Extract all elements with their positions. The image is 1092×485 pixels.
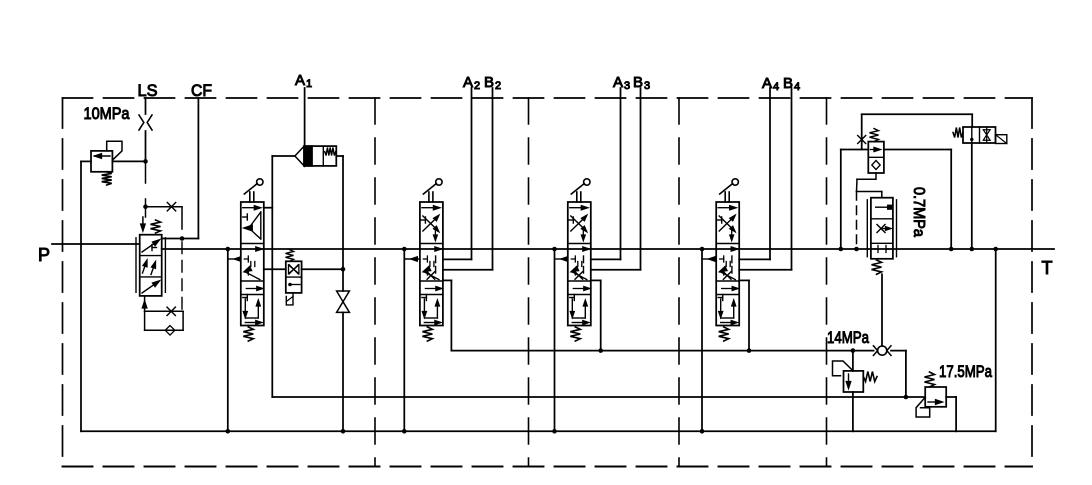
check valve in bypass loop [165,326,175,336]
wire 17.5MPa output [946,396,956,398]
node compensator output junction [341,267,346,272]
node main rail junction x=856.5 [854,247,859,252]
wire tank bus bottom [81,430,996,432]
svg-text:4: 4 [773,81,779,93]
priority valve top spring [151,220,161,233]
compensator pilot tab [286,293,293,305]
wire compensator line to valve1 [264,268,286,270]
node main rail junction [700,247,705,252]
wire cylinder drain x=343 down through main rail [342,156,344,269]
0.7MPa valve box1 mark [876,206,887,208]
valve return spring [422,327,432,341]
wire drop to tank bus [701,249,703,431]
compensator valve body [286,261,302,293]
directional valve body [420,202,443,326]
wire LS to corner down to drain gallery [891,350,906,352]
node main rail junction [402,247,407,252]
priority valve box1 arrow [142,241,159,253]
valve box2 center marks [435,247,442,251]
manual unloader solenoid box [996,135,1007,144]
wire pilot drop to unloading valve [861,114,863,149]
svg-text:A: A [613,74,623,91]
relief 17.5MPa spring [925,372,935,387]
wire drain to LS gallery [739,279,749,281]
svg-text:3: 3 [624,80,630,92]
valve box3 arrow [722,288,736,290]
wire A port line [769,88,771,259]
unloading valve body [868,142,884,173]
manual unloader throttle symbol [983,130,990,135]
orifice x on damping branch [167,203,175,211]
wire drop to tank bus [554,249,556,431]
node CF junction [180,236,185,241]
check arrow to valve [404,258,420,260]
bypass loop with orifice and check [145,310,184,312]
svg-text:1: 1 [306,78,312,90]
shutoff throttle (bowtie) [337,291,350,302]
node LS pilot branch [143,204,148,209]
section divider dashed x=826.5 [826,98,828,467]
manual unloader 2/2 valve top right [963,127,996,143]
0.7MPa valve box3 stubs [877,246,879,253]
valve box3 arrow [246,288,260,290]
wire unloader to main rail [971,143,973,249]
svg-text:10MPa: 10MPa [84,104,130,123]
wire tank bus riser left x=81 [80,161,82,431]
wire 14MPa valve feed [852,351,854,371]
0.7MPa valve box2 orifice arrow [877,225,885,233]
valve box4 float arrows [244,299,246,315]
priority valve side rails [135,238,137,292]
valve box2 center marks [256,247,262,251]
wire riser from main rail to unloading valve [840,150,842,250]
wire pilot loop to 0.7MPa valve [856,192,858,250]
compensator box2 pilot [288,283,292,287]
wire CF port line [197,98,199,239]
relief valve 14MPa body [844,371,864,392]
wire throttle to tank bus [342,312,344,431]
enclosure right border (dashed) [1031,98,1033,467]
wire unloading valve drain [857,173,876,179]
orifice x in pilot drop [858,136,866,144]
check valve (ball) [878,346,887,355]
relief 14MPa pilot tab [833,361,854,376]
pilot arrow into priority valve spring side [142,217,144,226]
check arrow to valve [228,258,241,260]
0.7MPa valve side rails [866,200,868,257]
relief valve 17.5MPa body [925,387,946,407]
wire valve1 to cylinder line [264,207,273,209]
wire A port line [620,88,622,259]
node throttle tank junction [341,429,346,434]
directional valve body [568,202,591,326]
unloading valve box2 check diamond [872,161,880,170]
svg-text:T: T [1042,258,1053,278]
svg-text:B: B [633,74,643,91]
wire cylinder/drain riser x=272.3 [271,156,273,397]
wire B port line [791,88,793,270]
valve box1 symbols [422,207,438,209]
compensator box1 throttle bowtie [289,265,299,274]
node drain gallery junction [904,395,909,400]
node LS junction [143,159,148,164]
relief 10MPa spring [102,172,112,185]
priority valve box2 arrows [143,262,147,274]
node tank bus junction [700,429,705,434]
node tank bus junction [552,429,557,434]
valve lever [249,192,251,202]
svg-text:3: 3 [644,80,650,92]
valve lever [576,192,578,202]
relief 14MPa spring [863,372,877,382]
wire LS damping branch to CF junction [146,206,183,208]
0.7MPa back-pressure valve body [871,198,893,259]
valve box4 float arrows [720,299,722,315]
wire P inlet to priority valve [52,243,140,245]
svg-text:P: P [38,245,50,265]
compensator spring [286,250,294,262]
directional valve body [241,202,264,326]
relief 10MPa pilot tab [107,141,122,160]
valve box1 symbols [243,207,259,209]
valve box2 slant arrow [571,266,578,271]
wire A port line [471,88,473,259]
unloading valve spring top [870,129,879,142]
directional valve body [716,202,739,326]
valve box2 slant arrow [423,266,430,271]
wire drain to LS gallery [591,279,601,281]
valve box3 arrow [573,288,587,290]
node main rail junction [226,247,231,252]
svg-text:17.5MPa: 17.5MPa [939,362,992,381]
node T return junction [993,247,998,252]
enclosure left border (dashed) [62,98,64,467]
enclosure top border (dashed) [63,97,1033,99]
valve box2 slant arrow [720,266,727,271]
wire unloader top connection [971,114,973,127]
wire 14MPa output to tank bus [852,392,854,431]
cylinder (brake actuator) A1 [304,146,336,166]
node LS gallery junction v4 [747,348,752,353]
svg-text:14MPa: 14MPa [827,328,869,347]
section divider dashed x=375 [374,98,376,467]
relief valve 10MPa [81,160,91,162]
priority valve box3 arrow [142,282,159,294]
node main rail junction x=840.8 [839,247,844,252]
node LS gallery junction v3 [598,348,603,353]
node main rail junction x=951.2 [949,247,954,252]
wire LS gallery y=350.6 [451,350,873,352]
0.7MPa valve bottom spring [872,260,882,274]
node tank bus junction [226,429,231,434]
wire unloading valve output to main rail [884,149,951,151]
priority valve body [140,235,162,296]
section divider dashed x=679 [678,98,680,467]
section divider dashed x=528.5 [528,98,530,467]
svg-text:A: A [295,72,305,89]
wire LS pilot dashed to priority valve [145,161,147,183]
valve box2 slant arrow [244,266,251,271]
wire dashed pilot from CF junction down to bypass loop [181,242,183,311]
check arrow to valve [702,258,716,260]
valve box1 symbols [570,207,586,209]
node LS junction at 14MPa valve [851,348,856,353]
wire drop to tank bus [227,249,229,431]
valve box1 symbols [718,207,734,209]
valve box4 float arrows [571,299,573,315]
relief 17.5MPa pilot tab [916,398,930,417]
wire main EF rail from priority valve to T outlet [162,248,1054,250]
wire cylinder spring-side port [336,155,343,157]
check arrow to valve [555,258,568,260]
wire compensator drain [342,269,344,291]
node tank bus junction [402,429,407,434]
svg-text:CF: CF [191,81,212,100]
valve box2 center marks [583,247,590,251]
node main rail junction x=971.8 [970,247,975,252]
svg-text:4: 4 [794,81,800,93]
svg-text:LS: LS [138,81,158,100]
priority valve bottom pilot line [144,296,146,311]
wire LS port line [145,98,147,114]
orifice x in bypass loop [167,307,175,315]
valve return spring [243,327,253,341]
orifice on LS line (>|<) [139,115,144,130]
wire drain to LS gallery [443,279,452,281]
wire A1 port line [304,88,306,146]
node main rail junction [552,247,557,252]
valve box2 center marks [731,247,738,251]
enclosure bottom border (dashed) [63,466,1033,468]
valve lever [724,192,726,202]
wire cylinder piston-side to riser [272,155,295,157]
wire pilot supply top line [862,113,973,115]
svg-text:2: 2 [474,80,480,92]
valve box3 arrow [425,288,439,290]
svg-text:0.7MPa: 0.7MPa [910,187,927,237]
svg-text:2: 2 [495,80,501,92]
wire B port line [640,88,642,270]
valve box4 float arrows [423,299,425,315]
manual unloader spring left [953,128,963,138]
valve lever [428,192,430,202]
wire B port line [492,88,494,270]
wire drain gallery y=397 [272,396,925,398]
wire T return riser [995,249,997,431]
unloading valve box1 arrow [871,149,880,151]
wire 0.7MPa valve to check valve [881,274,883,346]
valve return spring [570,327,580,341]
wire drop to tank bus [403,249,405,431]
valve return spring [719,327,729,341]
